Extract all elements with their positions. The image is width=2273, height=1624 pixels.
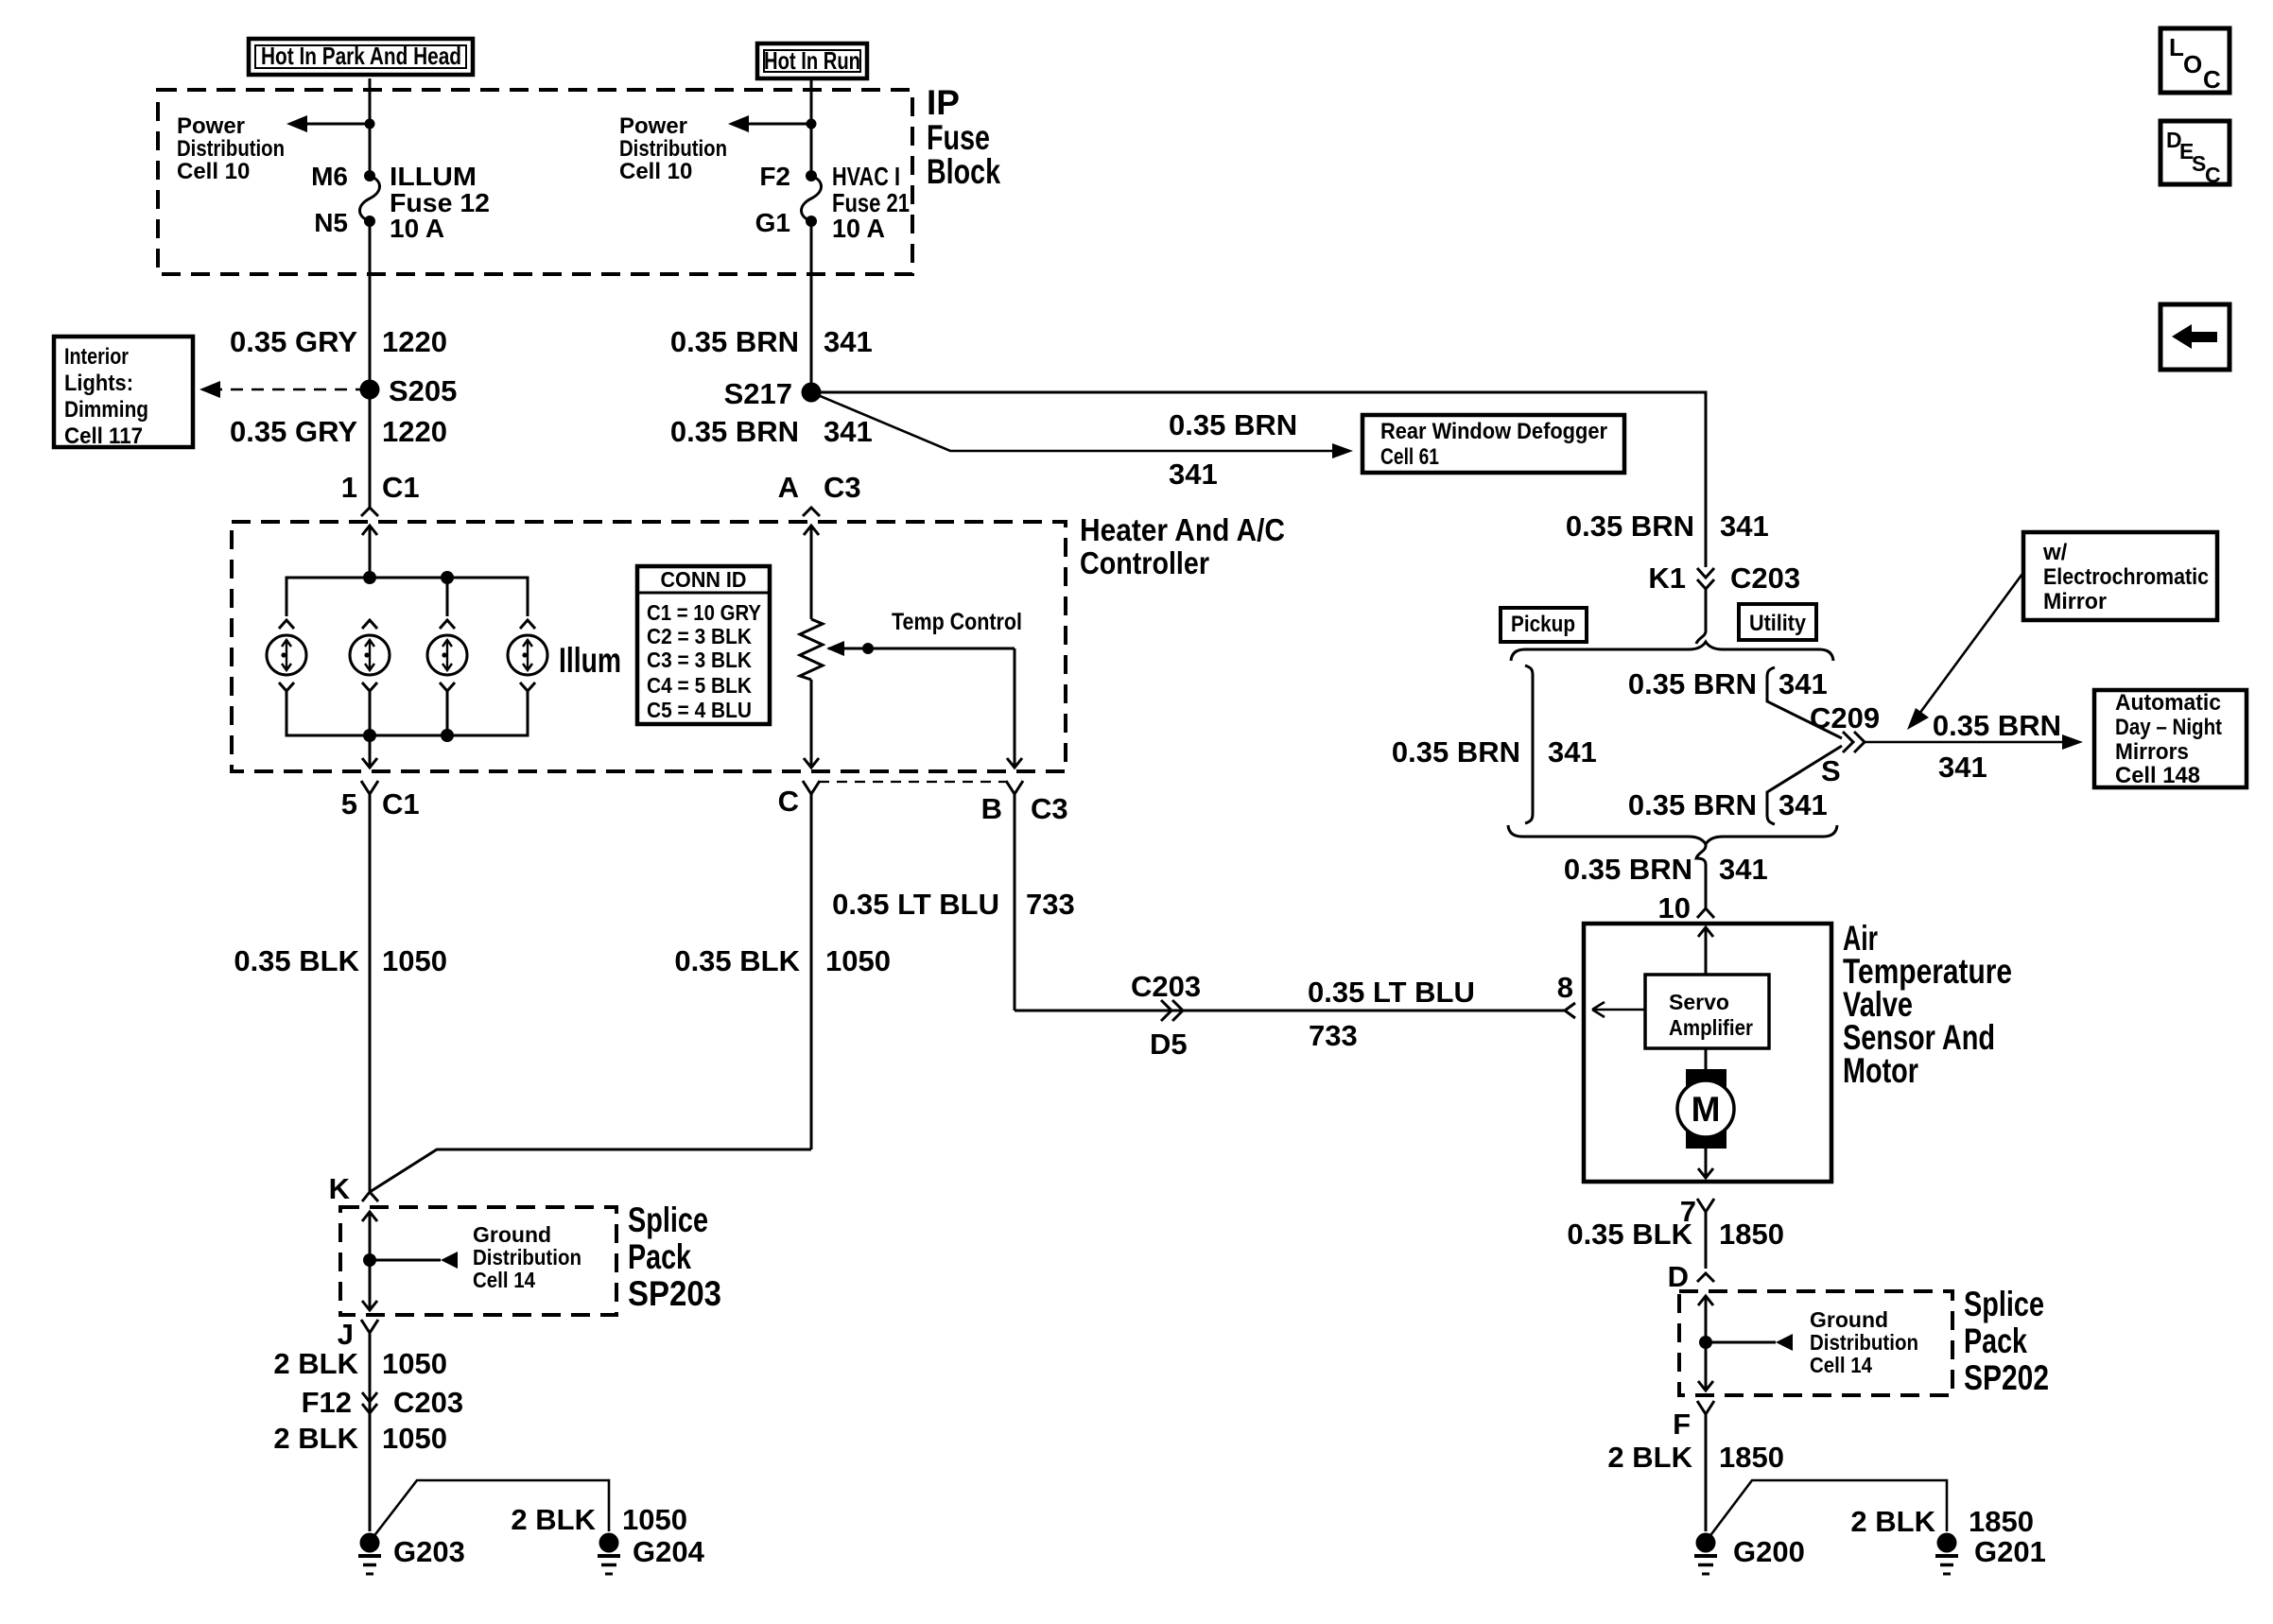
connector symbol at pin 8 (female left of box) bbox=[1565, 1003, 1575, 1018]
svg-text:0.35 GRY: 0.35 GRY bbox=[230, 325, 357, 358]
svg-text:ILLUM: ILLUM bbox=[390, 162, 477, 191]
wire separator to pin 10 bbox=[1705, 865, 1708, 908]
svg-text:Amplifier: Amplifier bbox=[1669, 1015, 1753, 1040]
svg-text:2 BLK: 2 BLK bbox=[273, 1347, 358, 1380]
motor M armature blocks bbox=[1686, 1069, 1726, 1090]
ground G201 bbox=[1935, 1533, 1958, 1575]
arrow from mirror box to C209 bbox=[1907, 574, 2022, 730]
wire label 0.35 BRN 341 (upper branch) bbox=[1628, 667, 1828, 700]
splice pack SP203 internal wire with arrows bbox=[362, 1212, 377, 1310]
fuse 21 terminal dot F2 bbox=[806, 170, 817, 181]
svg-text:1: 1 bbox=[341, 471, 357, 504]
section label Heater And A/C Controller bbox=[1080, 512, 1285, 580]
fuse F12 terminal dot N5 bbox=[364, 216, 375, 227]
svg-text:Distribution: Distribution bbox=[473, 1245, 581, 1270]
male pin arrow at pin 1 C1 bbox=[362, 526, 377, 578]
fuse 21 terminal dot G1 bbox=[806, 216, 817, 227]
svg-text:Servo: Servo bbox=[1669, 990, 1729, 1014]
wire label 0.35 BLK 1050 (wire C) bbox=[674, 944, 891, 977]
reference box w/ Electrochromatic Mirror bbox=[2023, 532, 2217, 620]
pin label 1 / C1 bbox=[341, 471, 420, 504]
svg-text:C: C bbox=[2205, 163, 2221, 187]
connector symbol at pin 1 C1 (female above box) bbox=[361, 508, 378, 516]
svg-text:341: 341 bbox=[1548, 735, 1597, 769]
wire label 0.35 BRN 341 (upper) bbox=[670, 325, 873, 358]
ground distribution branch arrow (SP202) bbox=[1706, 1334, 1793, 1351]
wire label 2 BLK 1050 (upper) bbox=[273, 1347, 447, 1380]
arrow to power distribution (right) bbox=[728, 115, 811, 132]
svg-text:G200: G200 bbox=[1733, 1535, 1805, 1568]
svg-text:C209: C209 bbox=[1810, 701, 1880, 734]
svg-text:Electrochromatic: Electrochromatic bbox=[2043, 564, 2209, 590]
svg-text:G204: G204 bbox=[633, 1535, 705, 1568]
svg-text:Mirror: Mirror bbox=[2043, 589, 2107, 614]
wire label 0.35 BRN 341 (left span) bbox=[1392, 735, 1597, 769]
svg-text:C3: C3 bbox=[824, 471, 861, 504]
svg-text:Temp Control: Temp Control bbox=[892, 609, 1022, 635]
svg-text:341: 341 bbox=[1778, 788, 1828, 821]
splice S205 dot bbox=[360, 380, 380, 400]
svg-text:1050: 1050 bbox=[382, 944, 447, 977]
svg-text:Power: Power bbox=[177, 113, 245, 139]
svg-text:F: F bbox=[1673, 1408, 1691, 1441]
svg-text:C4 = 5 BLK: C4 = 5 BLK bbox=[647, 673, 752, 698]
wire label 0.35 LT BLU 733 bbox=[832, 888, 1075, 921]
svg-text:341: 341 bbox=[1169, 458, 1218, 491]
junction dot on wire at arrow (left) bbox=[365, 119, 375, 130]
splice pack SP202 internal wire with arrows bbox=[1698, 1296, 1713, 1391]
section label Air Temperature Valve Sensor And Motor bbox=[1843, 919, 2012, 1090]
reference box Rear Window Defogger Cell 61 bbox=[1362, 415, 1624, 473]
connector F12 C203 double chevron bbox=[362, 1392, 377, 1413]
svg-text:341: 341 bbox=[824, 325, 873, 358]
wire from Hot In Park to fuse 12 bbox=[369, 78, 372, 176]
svg-text:0.35 BRN: 0.35 BRN bbox=[670, 415, 799, 448]
svg-text:M6: M6 bbox=[311, 162, 348, 191]
svg-text:0.35 BRN: 0.35 BRN bbox=[1169, 408, 1297, 441]
fuse 21 S-curve element bbox=[802, 176, 822, 221]
connector C3 thin dashed line between pins C and B bbox=[819, 781, 1006, 783]
reference box Interior Lights Dimming Cell 117 bbox=[54, 337, 193, 449]
svg-text:S: S bbox=[1821, 754, 1841, 787]
heater and A/C controller dashed box bbox=[232, 522, 1066, 771]
svg-text:L: L bbox=[2169, 33, 2184, 61]
svg-text:C1: C1 bbox=[382, 471, 420, 504]
svg-text:D5: D5 bbox=[1150, 1028, 1188, 1061]
connector symbol at pin C (female below box) bbox=[803, 781, 820, 1149]
potentiometer wiper arrow bbox=[826, 641, 1015, 656]
svg-text:0.35 BRN: 0.35 BRN bbox=[1566, 510, 1694, 543]
svg-text:Motor: Motor bbox=[1843, 1051, 1918, 1090]
junction dot top bus at wire 1 bbox=[363, 571, 376, 584]
splice pack SP202 dashed box bbox=[1679, 1291, 1952, 1395]
svg-text:J: J bbox=[338, 1318, 354, 1351]
svg-text:0.35 BLK: 0.35 BLK bbox=[674, 944, 800, 977]
pin label K1 / C203 bbox=[1648, 561, 1800, 595]
svg-text:1220: 1220 bbox=[382, 415, 447, 448]
svg-text:Hot In Park And Head: Hot In Park And Head bbox=[261, 42, 461, 70]
wire label 0.35 GRY 1220 (upper) bbox=[230, 325, 447, 358]
svg-text:Controller: Controller bbox=[1080, 545, 1209, 580]
text Ground Distribution Cell 14 (SP202) bbox=[1810, 1307, 1918, 1377]
section label IP Fuse Block bbox=[927, 83, 1000, 191]
pin label B / C3 bbox=[981, 792, 1068, 825]
wire label 2 BLK 1050 (G204 branch) bbox=[511, 1503, 687, 1536]
svg-text:K: K bbox=[329, 1172, 351, 1205]
wire pin B to air box pin 8 bbox=[1015, 1010, 1565, 1012]
air temperature valve sensor and motor box bbox=[1584, 924, 1831, 1182]
wire label 0.35 BLK 1850 bbox=[1567, 1218, 1784, 1251]
svg-text:Illum: Illum bbox=[559, 641, 621, 680]
svg-text:Cell 10: Cell 10 bbox=[177, 159, 250, 184]
svg-text:5: 5 bbox=[341, 787, 357, 821]
svg-text:K1: K1 bbox=[1648, 561, 1686, 595]
svg-text:C203: C203 bbox=[1730, 561, 1800, 595]
splice pack SP203 junction dot bbox=[363, 1253, 376, 1267]
svg-text:733: 733 bbox=[1026, 888, 1075, 921]
svg-text:C5 = 4 BLU: C5 = 4 BLU bbox=[647, 698, 752, 722]
svg-text:CONN ID: CONN ID bbox=[661, 567, 747, 592]
svg-text:Distribution: Distribution bbox=[177, 136, 285, 162]
wire label 2 BLK 1850 (left) bbox=[1607, 1441, 1784, 1474]
corner icon box LOC bbox=[2160, 28, 2230, 94]
connector symbol at pin F (female below splice pack) bbox=[1697, 1401, 1714, 1531]
svg-text:Interior: Interior bbox=[64, 344, 129, 370]
svg-text:HVAC I: HVAC I bbox=[832, 162, 900, 191]
svg-text:w/: w/ bbox=[2042, 540, 2068, 565]
svg-text:Block: Block bbox=[927, 152, 1000, 191]
svg-text:1050: 1050 bbox=[382, 1347, 447, 1380]
svg-text:0.35 LT BLU: 0.35 LT BLU bbox=[1308, 976, 1475, 1009]
svg-text:G203: G203 bbox=[393, 1535, 465, 1568]
wire label 0.35 BLK 1050 (wire 1) bbox=[234, 944, 447, 977]
connector symbol at pin D (female above splice pack) bbox=[1697, 1273, 1714, 1282]
section label Splice Pack SP203 bbox=[628, 1201, 721, 1313]
junction dot on wiper line bbox=[862, 643, 874, 654]
reference box Automatic Day-Night Mirrors Cell 148 bbox=[2094, 690, 2247, 788]
illumination bulb 4 bbox=[508, 620, 547, 735]
svg-text:SP203: SP203 bbox=[628, 1274, 721, 1313]
connector symbol at pin 5 C1 (female below box) bbox=[361, 781, 378, 1192]
label box Utility bbox=[1739, 604, 1816, 640]
junction dot top bus at bulb 3 bbox=[441, 571, 454, 584]
svg-text:Automatic: Automatic bbox=[2115, 690, 2221, 716]
svg-text:341: 341 bbox=[1938, 751, 1987, 784]
junction dot bottom bus at wire 1 bbox=[363, 729, 376, 742]
svg-text:M: M bbox=[1692, 1090, 1721, 1129]
wire branch G203 to G204 bbox=[373, 1480, 609, 1538]
svg-text:Pack: Pack bbox=[1964, 1322, 2027, 1360]
svg-text:C1 = 10 GRY: C1 = 10 GRY bbox=[647, 600, 761, 625]
svg-text:F2: F2 bbox=[759, 162, 790, 191]
male pin arrow at pin A C3 bbox=[804, 526, 819, 619]
svg-text:C203: C203 bbox=[1131, 970, 1201, 1003]
wire below resistor to pin C with down arrow bbox=[804, 680, 819, 768]
svg-text:0.35 BRN: 0.35 BRN bbox=[1628, 667, 1757, 700]
fuse 12 S-curve element bbox=[360, 176, 380, 221]
svg-text:0.35 BRN: 0.35 BRN bbox=[1933, 709, 2061, 742]
wire below fuse 12 to heater controller bbox=[369, 221, 372, 508]
wire label 2 BLK 1850 (right) bbox=[1850, 1505, 2034, 1538]
svg-text:N5: N5 bbox=[314, 208, 348, 237]
wire S217 diagonal to rear window defogger bbox=[811, 392, 1353, 458]
IP fuse block dashed box bbox=[158, 90, 912, 274]
svg-text:1850: 1850 bbox=[1969, 1505, 2034, 1538]
svg-text:Power: Power bbox=[619, 113, 687, 139]
wire from Hot In Run to fuse 21 bbox=[810, 78, 813, 176]
svg-text:0.35 LT BLU: 0.35 LT BLU bbox=[832, 888, 999, 921]
wire label 0.35 BRN 341 (lower) bbox=[670, 415, 873, 448]
wire bottom bus to pin 5 with down arrow bbox=[362, 735, 377, 768]
wire below fuse 21 to S217 bbox=[810, 221, 813, 392]
wire motor to box bottom with down arrow bbox=[1698, 1149, 1713, 1178]
male pin arrow at pin 10 inside box bbox=[1698, 927, 1713, 975]
arrow to power distribution (left) bbox=[286, 115, 370, 132]
corner icon box DESC bbox=[2160, 121, 2230, 187]
svg-text:10: 10 bbox=[1658, 891, 1691, 924]
ground G204 bbox=[598, 1533, 620, 1575]
svg-text:341: 341 bbox=[1720, 510, 1769, 543]
svg-text:Fuse: Fuse bbox=[927, 118, 990, 157]
splice connector C209 double chevron bbox=[1843, 732, 1865, 752]
svg-text:8: 8 bbox=[1557, 971, 1573, 1004]
pin label 5 / C1 bbox=[341, 787, 420, 821]
wire label 0.35 GRY 1220 (lower) bbox=[230, 415, 447, 448]
svg-text:Distribution: Distribution bbox=[619, 136, 727, 162]
left span separator line with hooks bbox=[1525, 665, 1533, 823]
svg-text:Pack: Pack bbox=[628, 1237, 691, 1276]
svg-text:0.35 BRN: 0.35 BRN bbox=[1392, 735, 1520, 769]
servo amplifier output arrow to pin 8 bbox=[1592, 1002, 1645, 1017]
svg-text:C: C bbox=[2203, 65, 2221, 94]
svg-text:1850: 1850 bbox=[1719, 1441, 1784, 1474]
svg-text:0.35 BLK: 0.35 BLK bbox=[234, 944, 359, 977]
fuse F12 terminal dot M6 bbox=[364, 170, 375, 181]
splice S217 dot bbox=[802, 383, 822, 403]
svg-text:Pickup: Pickup bbox=[1511, 612, 1575, 637]
svg-text:Ground: Ground bbox=[473, 1222, 551, 1247]
text Power Distribution Cell 10 (left) bbox=[177, 113, 285, 184]
svg-text:0.35 BRN: 0.35 BRN bbox=[670, 325, 799, 358]
connector symbol at pin 7 (female below box) bbox=[1697, 1199, 1714, 1269]
text Power Distribution Cell 10 (right) bbox=[619, 113, 727, 184]
section label Splice Pack SP202 bbox=[1964, 1285, 2049, 1397]
svg-text:1050: 1050 bbox=[825, 944, 891, 977]
wire S205 to connector C1 bbox=[369, 389, 372, 508]
svg-text:C2 = 3 BLK: C2 = 3 BLK bbox=[647, 624, 752, 648]
illumination bulb 3 bbox=[427, 620, 467, 735]
splice hook below K1 bbox=[1696, 630, 1706, 644]
wire C down and across to splice K bbox=[370, 1149, 811, 1192]
svg-text:Rear Window Defogger: Rear Window Defogger bbox=[1380, 419, 1607, 444]
ground distribution branch arrow (SP203) bbox=[370, 1252, 458, 1269]
ground G203 bbox=[358, 1533, 381, 1575]
svg-text:C1: C1 bbox=[382, 787, 420, 821]
svg-text:G201: G201 bbox=[1974, 1535, 2046, 1568]
svg-text:IP: IP bbox=[927, 83, 960, 122]
svg-text:C3 = 3 BLK: C3 = 3 BLK bbox=[647, 648, 752, 672]
wire S217 to right corner bbox=[811, 392, 1706, 567]
svg-text:1050: 1050 bbox=[382, 1422, 447, 1455]
wire servo amplifier to motor bbox=[1705, 1048, 1708, 1071]
motor M circle bbox=[1677, 1080, 1734, 1137]
svg-text:0.35 BLK: 0.35 BLK bbox=[1567, 1218, 1692, 1251]
svg-text:1050: 1050 bbox=[622, 1503, 687, 1536]
svg-text:G1: G1 bbox=[755, 208, 790, 237]
upper branch separator hook and diagonal to C209 bbox=[1767, 667, 1842, 738]
text Ground Distribution Cell 14 (SP203) bbox=[473, 1222, 581, 1292]
wire label 0.35 BRN 341 (lower branch) bbox=[1628, 788, 1828, 821]
svg-text:1220: 1220 bbox=[382, 325, 447, 358]
svg-text:Cell 10: Cell 10 bbox=[619, 159, 692, 184]
svg-text:D: D bbox=[1668, 1260, 1689, 1293]
splice hook below lower brace bbox=[1696, 844, 1706, 865]
connector C203 D5 double chevron bbox=[1161, 1000, 1183, 1021]
svg-text:S205: S205 bbox=[389, 374, 457, 407]
svg-text:O: O bbox=[2183, 50, 2202, 78]
svg-text:341: 341 bbox=[1778, 667, 1828, 700]
svg-text:C203: C203 bbox=[393, 1386, 463, 1419]
svg-text:Utility: Utility bbox=[1749, 611, 1807, 636]
svg-text:Lights:: Lights: bbox=[64, 371, 133, 396]
svg-text:2 BLK: 2 BLK bbox=[1607, 1441, 1692, 1474]
connector K1 C203 double chevron bbox=[1697, 568, 1714, 630]
brace lower (pickup/utility span) bbox=[1508, 825, 1837, 844]
pin label F12 / C203 bbox=[302, 1386, 464, 1419]
svg-text:A: A bbox=[778, 471, 799, 504]
temp control resistor R (potentiometer) bbox=[800, 619, 823, 680]
fuse 12 label ILLUM Fuse 12 10 A bbox=[390, 162, 490, 243]
servo amplifier box bbox=[1645, 975, 1769, 1048]
junction dot bottom bus at bulb 3 bbox=[441, 729, 454, 742]
wire label 0.35 LT BLU 733 (horizontal run) bbox=[1308, 976, 1475, 1052]
wire C209 to automatic day-night mirrors bbox=[1865, 734, 2083, 750]
wire label 0.35 BRN 341 (right drop) bbox=[1566, 510, 1769, 543]
label box Pickup bbox=[1501, 608, 1587, 642]
lower branch diagonal and separator hook bbox=[1767, 746, 1842, 824]
svg-text:Splice: Splice bbox=[628, 1201, 708, 1239]
svg-text:Dimming: Dimming bbox=[64, 397, 148, 423]
svg-text:Ground: Ground bbox=[1810, 1307, 1888, 1332]
svg-text:733: 733 bbox=[1309, 1019, 1358, 1052]
wiper wire down to pin B with down arrow bbox=[1007, 648, 1022, 768]
fuse 21 label HVAC I Fuse 21 10 A bbox=[832, 162, 910, 243]
wire bulb3 top branch bbox=[446, 578, 449, 616]
CONN ID table box bbox=[637, 566, 770, 724]
svg-text:Cell 14: Cell 14 bbox=[473, 1268, 535, 1292]
junction dot on wire at arrow (right) bbox=[807, 119, 817, 130]
illumination bulb bus (bottom) bbox=[286, 691, 528, 735]
svg-text:Cell 117: Cell 117 bbox=[64, 423, 143, 449]
svg-text:Hot In Run: Hot In Run bbox=[764, 46, 860, 75]
svg-text:341: 341 bbox=[824, 415, 873, 448]
svg-text:Splice: Splice bbox=[1964, 1285, 2044, 1323]
svg-text:2 BLK: 2 BLK bbox=[273, 1422, 358, 1455]
svg-text:B: B bbox=[981, 792, 1002, 825]
svg-text:S217: S217 bbox=[724, 377, 792, 410]
svg-text:1850: 1850 bbox=[1719, 1218, 1784, 1251]
svg-text:2 BLK: 2 BLK bbox=[511, 1503, 596, 1536]
connector symbol at pin J (female below splice pack) bbox=[361, 1320, 378, 1531]
connector symbol at pin A C3 (female above box) bbox=[803, 508, 820, 516]
illumination bulb 2 bbox=[350, 620, 390, 735]
svg-text:Cell 14: Cell 14 bbox=[1810, 1353, 1872, 1377]
illumination bulb 1 bbox=[267, 620, 306, 735]
connector symbol at pin B (female below box) bbox=[1006, 781, 1023, 1011]
corner icon box back arrow bbox=[2160, 304, 2230, 370]
splice pack SP202 junction dot bbox=[1699, 1336, 1712, 1349]
label box "Hot In Run" bbox=[757, 43, 867, 78]
connector symbol at K (female above splice pack) bbox=[362, 1192, 378, 1201]
svg-text:10 A: 10 A bbox=[390, 214, 444, 243]
svg-text:Distribution: Distribution bbox=[1810, 1330, 1918, 1355]
svg-text:Heater And A/C: Heater And A/C bbox=[1080, 512, 1285, 547]
splice pack SP203 dashed box bbox=[340, 1207, 616, 1315]
svg-text:Day – Night: Day – Night bbox=[2115, 715, 2222, 740]
svg-text:0.35 GRY: 0.35 GRY bbox=[230, 415, 357, 448]
svg-text:SP202: SP202 bbox=[1964, 1358, 2049, 1397]
wire branch G200 to G201 bbox=[1709, 1480, 1947, 1538]
svg-text:Cell 148: Cell 148 bbox=[2115, 763, 2200, 788]
svg-text:Cell 61: Cell 61 bbox=[1380, 444, 1439, 470]
svg-text:341: 341 bbox=[1719, 853, 1768, 886]
pin label A / C3 bbox=[778, 471, 861, 504]
svg-text:10 A: 10 A bbox=[832, 214, 885, 243]
svg-text:0.35 BRN: 0.35 BRN bbox=[1564, 853, 1692, 886]
svg-text:Mirrors: Mirrors bbox=[2115, 739, 2189, 765]
connector symbol at pin 10 (female above box) bbox=[1697, 908, 1714, 918]
wire label 2 BLK 1050 (lower) bbox=[273, 1422, 447, 1455]
brace upper (pickup/utility span) bbox=[1511, 642, 1833, 661]
label box "Hot In Park And Head" bbox=[249, 39, 473, 75]
ground G200 bbox=[1694, 1533, 1717, 1575]
svg-text:F12: F12 bbox=[302, 1386, 352, 1419]
wire label 0.35 BRN 341 (to pin 10) bbox=[1564, 853, 1768, 886]
svg-text:C: C bbox=[778, 785, 799, 818]
svg-text:0.35 BRN: 0.35 BRN bbox=[1628, 788, 1757, 821]
illumination bulb bus (top) bbox=[286, 578, 528, 616]
svg-text:2 BLK: 2 BLK bbox=[1850, 1505, 1935, 1538]
dashed arrow from S205 to Interior Lights box bbox=[200, 381, 361, 398]
svg-text:C3: C3 bbox=[1031, 792, 1068, 825]
